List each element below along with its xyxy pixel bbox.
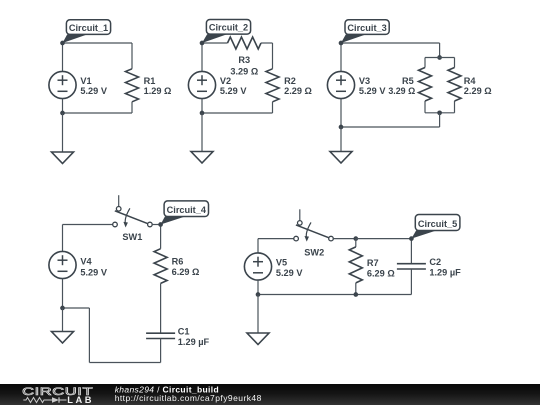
wire ground stem circuit 4 — [62, 308, 64, 332]
node junction circuit 3 bottom — [339, 125, 344, 130]
resistor R1 — [126, 69, 172, 102]
svg-text:6.29 Ω: 6.29 Ω — [172, 267, 200, 277]
wire V5 top lead — [257, 239, 259, 253]
svg-text:V4: V4 — [80, 257, 92, 267]
node junction R7 bottom — [353, 292, 358, 297]
ground circuit 3 — [330, 152, 352, 164]
svg-text:1.29 µF: 1.29 µF — [178, 337, 210, 347]
capacitor C1 — [146, 326, 209, 346]
footer bar — [0, 384, 540, 405]
svg-text:V2: V2 — [220, 76, 231, 86]
wire C2 top lead — [410, 239, 412, 264]
svg-text:Circuit_5: Circuit_5 — [418, 219, 457, 229]
node junction circuit 5 bottom — [256, 292, 261, 297]
wire ground stem circuit 3 — [340, 127, 342, 152]
svg-text:Circuit_2: Circuit_2 — [209, 23, 248, 33]
wire R5 top lead — [424, 58, 426, 68]
svg-text:Circuit_3: Circuit_3 — [347, 23, 386, 33]
wire R7 bottom lead — [355, 283, 357, 295]
resistor R3 — [228, 37, 262, 77]
ground circuit 2 — [191, 152, 213, 164]
svg-text:1.29 µF: 1.29 µF — [429, 268, 461, 278]
wire R1 bottom lead — [131, 102, 133, 113]
wire parallel top rail — [425, 57, 455, 59]
svg-text:V3: V3 — [359, 76, 370, 86]
wire bottom of circuit 2 — [202, 112, 273, 114]
wire R5 bottom lead — [424, 101, 426, 113]
wire V3 bottom lead — [340, 99, 342, 127]
ground circuit 5 — [247, 333, 269, 345]
svg-text:5.29 V: 5.29 V — [80, 86, 107, 96]
voltage source V5 — [244, 253, 303, 280]
svg-text:LAB: LAB — [67, 395, 94, 405]
node junction parallel top — [437, 55, 442, 60]
svg-text:5.29 V: 5.29 V — [359, 86, 386, 96]
wire ground stem circuit 5 — [257, 295, 259, 334]
wire bottom of circuit 3 — [341, 126, 440, 128]
wire V4 bottom lead — [62, 279, 64, 308]
svg-text:V1: V1 — [80, 76, 91, 86]
wire V2 top lead — [201, 43, 203, 71]
svg-text:5.29 V: 5.29 V — [80, 267, 107, 277]
node flag Circuit_3 — [339, 20, 390, 46]
svg-text:SW1: SW1 — [122, 232, 142, 242]
svg-text:5.29 V: 5.29 V — [276, 268, 303, 278]
svg-text:C1: C1 — [178, 326, 190, 336]
svg-text:R3: R3 — [238, 55, 250, 65]
logo resistor zigzag — [23, 398, 47, 403]
svg-text:http://circuitlab.com/ca7pfy9e: http://circuitlab.com/ca7pfy9eurk48 — [115, 393, 262, 403]
resistor R4 — [448, 68, 492, 102]
svg-text:R4: R4 — [464, 76, 477, 86]
wire R2 top lead — [272, 43, 274, 69]
wire bottom of circuit 5 — [258, 294, 411, 296]
node junction circuit 4 bottom — [60, 306, 65, 311]
wire bottom of circuit 4 — [89, 362, 160, 364]
svg-text:3.29 Ω: 3.29 Ω — [230, 67, 258, 77]
svg-text:3.29 Ω: 3.29 Ω — [388, 86, 415, 96]
svg-text:V5: V5 — [276, 258, 287, 268]
svg-text:R5: R5 — [402, 76, 414, 86]
wire R6 to C1 — [160, 283, 162, 333]
wire top of circuit 4 — [63, 224, 113, 226]
wire top of circuit 5 — [258, 238, 294, 240]
wire ground stem circuit 1 — [62, 113, 64, 152]
node junction R7 top — [353, 236, 358, 241]
wire top of circuit 3 — [341, 42, 440, 44]
wire C1 bottom lead — [160, 339, 162, 363]
svg-text:2.29 Ω: 2.29 Ω — [284, 86, 312, 96]
resistor R2 — [266, 69, 312, 102]
resistor R5 — [388, 68, 431, 102]
svg-text:Circuit_4: Circuit_4 — [167, 205, 207, 215]
wire V4 top lead — [62, 225, 64, 252]
footer url line — [115, 393, 262, 403]
switch SW2 — [294, 209, 334, 257]
node junction circuit 2 bottom — [200, 111, 205, 116]
voltage source V4 — [49, 251, 108, 278]
node flag Circuit_5 — [409, 215, 460, 241]
capacitor C2 — [397, 257, 461, 278]
svg-text:5.29 V: 5.29 V — [220, 86, 247, 96]
svg-text:Circuit_1: Circuit_1 — [69, 23, 108, 33]
wire R7 top lead — [355, 239, 357, 247]
voltage source V2 — [188, 71, 247, 98]
svg-text:C2: C2 — [429, 257, 441, 267]
svg-text:R7: R7 — [367, 258, 379, 268]
wire top left of circuit 2 — [202, 42, 228, 44]
wire R6 top lead — [160, 225, 162, 249]
resistor R7 — [349, 247, 394, 283]
footer author line — [115, 384, 219, 394]
wire bottom link circuit 4 — [63, 307, 90, 309]
wire parallel stem top — [439, 43, 441, 58]
svg-text:R2: R2 — [284, 76, 296, 86]
wire R2 bottom lead — [272, 102, 274, 113]
logo LAB wordmark — [67, 395, 94, 405]
wire V5 bottom lead — [257, 280, 259, 294]
svg-text:6.29 Ω: 6.29 Ω — [367, 268, 395, 278]
svg-text:2.29 Ω: 2.29 Ω — [464, 86, 492, 96]
wire V3 top lead — [340, 43, 342, 71]
wire parallel bottom rail — [425, 112, 455, 114]
wire R1 top lead — [131, 43, 133, 69]
wire riser circuit 4 — [88, 308, 90, 363]
wire R4 bottom lead — [454, 101, 456, 113]
switch SW1 — [113, 195, 153, 242]
wire R7 node to C2 node — [356, 238, 412, 240]
voltage source V3 — [327, 71, 386, 98]
resistor R6 — [154, 249, 199, 284]
svg-text:SW2: SW2 — [304, 247, 324, 257]
wire top right of circuit 2 — [261, 42, 273, 44]
node flag Circuit_2 — [200, 20, 251, 46]
wire SW1 to node — [152, 224, 161, 226]
wire ground stem circuit 2 — [201, 113, 203, 152]
wire SW2 to R7 node — [333, 238, 356, 240]
node flag Circuit_1 — [60, 20, 110, 46]
node flag Circuit_4 — [158, 201, 208, 227]
svg-text:R1: R1 — [144, 76, 156, 86]
wire V1 top lead — [62, 43, 64, 71]
ground circuit 1 — [52, 152, 74, 164]
node junction parallel bottom — [437, 110, 442, 115]
node junction circuit 1 bottom — [60, 111, 65, 116]
wire parallel stem bottom — [439, 113, 441, 127]
wire C2 bottom lead — [410, 269, 412, 295]
CircuitLab logo CIRCUIT wordmark — [22, 385, 93, 397]
wire V1 bottom lead — [62, 99, 64, 113]
logo diode — [47, 397, 67, 402]
wire top of circuit 1 — [63, 42, 133, 44]
wire bottom of circuit 1 — [63, 112, 133, 114]
wire V2 bottom lead — [201, 99, 203, 113]
svg-text:1.29 Ω: 1.29 Ω — [144, 86, 172, 96]
voltage source V1 — [49, 71, 108, 98]
wire R4 top lead — [454, 58, 456, 68]
ground circuit 4 — [52, 332, 74, 344]
svg-text:R6: R6 — [172, 256, 184, 266]
